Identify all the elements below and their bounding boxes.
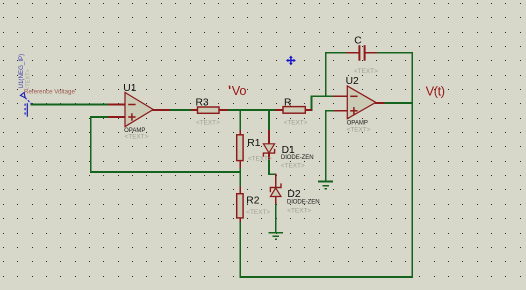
input terminal (blue) [20,93,31,117]
wire: U1 output to R3 [169,109,192,111]
ground under U2 + input [318,181,333,188]
wire: node Vo down to R1 [239,110,241,131]
resistor R1 [237,135,243,161]
wire: R3 to R through node Vo [227,109,276,111]
wire: jog up from R to U2 - row [311,96,313,110]
origin marker (blue cross) [286,56,296,66]
wire: jog between D1 and D2 [269,173,276,175]
pin: R left [276,109,283,111]
svg-text:<TEXT>: <TEXT> [125,133,149,140]
wire: horizontal feedback row to R1/R2 junction [91,171,241,173]
wire: R1 bottom to junction row [239,167,241,172]
svg-text:U1: U1 [123,83,136,94]
U2 minus symbol [350,95,357,97]
resistor R3 [198,107,220,113]
pin: U2 output [376,102,384,104]
svg-text:Reference Voltage: Reference Voltage [24,89,75,96]
pin: D1 top [268,131,270,144]
pin: R3 right [219,109,227,111]
svg-text:R: R [284,97,291,108]
wire: U2 + input down to ground [325,111,327,182]
wire: U2 output to rail [384,102,413,104]
diode D2 [270,188,281,197]
svg-text:Vo: Vo [232,83,247,98]
pin: U1 non-inverting input [109,116,125,118]
wire: feedback vertical from cap to U2 - row [325,53,327,97]
D1 zener bar [263,149,274,157]
svg-text:<TEXT>: <TEXT> [347,127,371,134]
wire: R2 bottom down [239,221,241,277]
pin: R right [305,109,311,111]
resistor R [283,107,305,114]
svg-text:<TEXT>: <TEXT> [196,120,220,127]
wire: cap row left [326,52,347,54]
svg-text:R1: R1 [247,138,260,149]
pin: R2 bottom [239,218,241,221]
U1 plus symbol [128,113,135,120]
wire: D2 bottom to ground [275,203,277,233]
wire: input terminal to U1 inverting input [32,104,109,106]
svg-text:<TEXT>: <TEXT> [248,156,272,163]
op-amp U2 [347,86,376,119]
diode D1 [263,144,274,153]
wire: U1 non-inverting input horizontal [91,116,109,118]
capacitor C plates [359,45,364,61]
svg-text:R3: R3 [196,98,209,109]
Vo apostrophe tick [228,86,230,89]
pin: U2 non-inverting input [335,110,347,112]
pin: D2 top [275,174,277,187]
wire: node down to D1 [268,110,270,131]
svg-text:<TEXT>: <TEXT> [25,69,31,90]
resistor R2 [237,194,243,218]
U1 minus symbol [128,104,135,106]
U2 plus symbol [350,107,357,114]
svg-text:<TEXT>: <TEXT> [281,163,305,170]
ground under D2 [268,233,283,239]
svg-text:<TEXT>: <TEXT> [287,208,311,215]
wire: bottom feedback row [240,276,412,278]
pin: U1 inverting input [109,104,125,106]
pin: R2 top [239,187,241,193]
svg-text:R2: R2 [246,196,259,207]
svg-text:U2: U2 [346,76,359,87]
wire: right feedback rail [411,53,413,277]
svg-text:DIODE-ZEN: DIODE-ZEN [281,154,314,161]
pin: R1 bottom [239,161,241,168]
pin: C left [347,52,359,54]
D2 zener bar [270,183,281,192]
pin: D2 bottom [275,197,277,204]
wire: cap row right [376,52,412,54]
pin: C right [365,52,376,54]
pin: U2 inverting input [334,95,348,97]
svg-text:<TEXT>: <TEXT> [354,68,378,75]
wire: U2 non-inverting row [326,110,335,112]
wire: D1 bottom down [268,158,270,174]
pin: R3 left [192,109,198,111]
pin: D1 bottom [268,153,270,158]
pin: U1 output [153,109,169,111]
svg-text:<TEXT>: <TEXT> [284,120,308,127]
wire: junction row down to R2 [239,172,241,187]
op-amp U1 [125,93,153,127]
svg-text:U1(NEG_IP): U1(NEG_IP) [18,54,25,89]
wire: U2 inverting row [312,95,334,97]
svg-text:C: C [354,36,362,47]
wire: left vertical down from U1 + input [90,117,92,172]
svg-text:V(t): V(t) [426,84,445,99]
svg-text:DIODE-ZEN: DIODE-ZEN [287,198,320,205]
pin: R1 top [239,131,241,135]
svg-text:<TEXT>: <TEXT> [246,209,270,216]
